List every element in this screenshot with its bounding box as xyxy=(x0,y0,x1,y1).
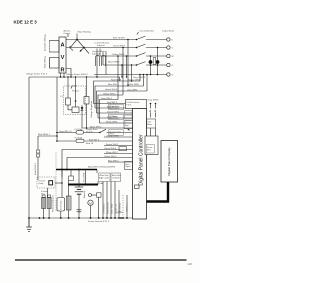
thick wire B xyxy=(68,184,98,186)
wire stub label to star xyxy=(76,34,78,41)
svg-text:Gray WH 4: Gray WH 4 xyxy=(101,97,113,100)
footer rule xyxy=(15,259,187,261)
node cascade v3 xyxy=(146,74,148,76)
wire battery feed row xyxy=(38,135,57,137)
wire relay to plugs xyxy=(47,188,49,198)
node AVR stub2 xyxy=(63,76,65,78)
wire DPC row 10 xyxy=(67,158,133,170)
svg-text:Yellow50/WH2: Yellow50/WH2 xyxy=(101,167,116,169)
output stud O xyxy=(167,63,174,67)
svg-text:Circuit Breaker: Circuit Breaker xyxy=(140,30,155,33)
self protect dashed enclosure xyxy=(64,86,86,115)
svg-text:Black WH 2: Black WH 2 xyxy=(90,126,102,128)
wire DPC row 9b xyxy=(104,153,133,155)
svg-text:Yellow WH 4: Yellow WH 4 xyxy=(103,93,116,95)
wire y77 corner drop xyxy=(119,77,121,81)
svg-text:Main Wiring: Main Wiring xyxy=(44,56,47,68)
wire cascade h5 xyxy=(100,100,119,124)
wire label box C xyxy=(109,130,124,136)
wire DPC row 1 xyxy=(94,103,126,105)
svg-text:Excitation Wiring: Excitation Wiring xyxy=(44,34,47,51)
wire R1 to coil xyxy=(68,105,72,110)
glow plug 2 xyxy=(47,198,51,209)
wire battery column bottom xyxy=(37,157,39,180)
fuse FU1 xyxy=(76,131,84,134)
wire star slant right long xyxy=(77,40,89,54)
svg-text:Red 75 WH: Red 75 WH xyxy=(113,38,125,40)
wire cascade h4 xyxy=(98,95,123,118)
svg-text:White WH 2: White WH 2 xyxy=(106,151,118,154)
connector plug battery xyxy=(36,150,39,157)
wire stub above AVR xyxy=(67,34,69,37)
svg-text:Voltage Detect WH 13: Voltage Detect WH 13 xyxy=(66,73,88,76)
wire resistor to bus xyxy=(68,210,70,218)
svg-text:Red WH 4: Red WH 4 xyxy=(107,102,118,104)
resistor R1 xyxy=(66,98,71,105)
svg-text:Black/WH 2.5: Black/WH 2.5 xyxy=(88,167,102,169)
wire relay feed xyxy=(61,170,63,198)
svg-text:Blue WH 2: Blue WH 2 xyxy=(108,160,119,162)
wire bundle v9 xyxy=(126,56,128,77)
svg-text:Alarm WH 2: Alarm WH 2 xyxy=(109,107,119,110)
node fuse row7 xyxy=(56,132,58,134)
node cascade v4 xyxy=(122,47,124,49)
dashed col xyxy=(122,195,124,218)
wire cascade v3 up xyxy=(146,75,148,92)
svg-text:Signal: Signal xyxy=(125,166,131,168)
svg-text:Main Winding: Main Winding xyxy=(78,32,92,34)
svg-text:White WH4: White WH4 xyxy=(106,120,118,123)
breaker pole 4 xyxy=(136,62,167,66)
svg-text:12-Wire Socket: 12-Wire Socket xyxy=(126,101,139,104)
svg-text:Stop Solenoid: Stop Solenoid xyxy=(106,202,109,214)
svg-text:Gray WH 1.5: Gray WH 1.5 xyxy=(59,130,72,133)
left label boxes column xyxy=(125,111,133,120)
wire AVR stub 1 xyxy=(60,73,62,77)
node cap1 row4 xyxy=(150,64,152,66)
wire cascade v1 up xyxy=(139,75,141,82)
capacitor CD1 body xyxy=(149,60,153,64)
wire sensor col 5 xyxy=(118,190,120,218)
svg-text:Alarm: Alarm xyxy=(147,123,152,126)
switch on row7 xyxy=(99,132,100,133)
svg-text:Voltage Detect P 41 3: Voltage Detect P 41 3 xyxy=(26,73,48,76)
node sp1 xyxy=(67,76,68,77)
wire row2 phase V xyxy=(66,47,137,49)
DPC top connector flange xyxy=(126,100,147,109)
node bundle v7b xyxy=(131,80,132,81)
glow plug caps xyxy=(42,195,45,198)
node AVR stub1 xyxy=(60,76,62,78)
wire motor to bus xyxy=(90,206,92,219)
svg-text:123: 123 xyxy=(188,262,193,266)
sensor label box 2 xyxy=(111,173,121,182)
label box row10 xyxy=(125,162,133,170)
wire R row out xyxy=(66,69,71,78)
fuse FU2 xyxy=(76,139,84,142)
node fuse row8 xyxy=(56,140,58,142)
node battery top xyxy=(78,169,80,171)
node cascade v2 xyxy=(143,74,145,76)
diode pointer below emergency stop xyxy=(127,129,129,131)
node bundle v9 bottom xyxy=(126,76,127,77)
wire sensor col 3 xyxy=(110,182,112,219)
wire CT column b xyxy=(99,49,101,57)
resistor block between capacitors xyxy=(153,58,156,65)
node coil top xyxy=(75,100,77,102)
node cascade v5 xyxy=(117,55,119,57)
resistor R2 xyxy=(84,97,89,105)
svg-text:R: R xyxy=(60,68,64,74)
svg-text:Blue WH 4: Blue WH 4 xyxy=(108,84,119,86)
svg-text:Stop: Stop xyxy=(125,124,129,127)
node bundle v9 top xyxy=(126,55,128,57)
pointer circuit breaker xyxy=(137,32,139,35)
output stud U xyxy=(167,38,174,42)
svg-text:Brown WH 2: Brown WH 2 xyxy=(106,143,119,146)
capacitor CD2 body xyxy=(156,60,160,64)
wire R2 down xyxy=(86,104,88,128)
wire switch to sender xyxy=(92,194,97,196)
winding L2 main xyxy=(50,58,60,69)
wire DPC row 8 fuse row xyxy=(57,140,133,142)
svg-text:Start Relay: Start Relay xyxy=(60,201,63,210)
wire plug2 to bus xyxy=(48,209,50,219)
wire drop to R1 xyxy=(67,77,69,98)
svg-text:Red 8 RVL1: Red 8 RVL1 xyxy=(35,162,37,175)
svg-text:Oil Pressure: Oil Pressure xyxy=(102,204,105,214)
node cap2 row4 xyxy=(157,64,159,66)
node thick row x62 xyxy=(61,169,63,171)
node R2 row xyxy=(86,127,88,129)
op-amp-like regulator block AVR xyxy=(59,37,66,74)
node cap2 row5 xyxy=(157,74,159,76)
capacitor CD1 column xyxy=(150,56,152,75)
connector block inner label xyxy=(146,145,154,154)
svg-text:Output Stud: Output Stud xyxy=(162,30,174,33)
breaker pole 1 xyxy=(136,36,167,40)
svg-text:Relay: Relay xyxy=(39,183,44,185)
svg-text:Orange WH2: Orange WH2 xyxy=(106,134,120,137)
wire label box B xyxy=(109,114,124,120)
svg-text:Black WH.5: Black WH.5 xyxy=(108,61,120,63)
node cap2 row2 xyxy=(157,47,159,49)
digital panel display box U3 xyxy=(161,141,178,183)
oil sender box xyxy=(97,193,102,197)
wire cascade v4 up xyxy=(122,48,124,96)
wire slant into CT column xyxy=(70,48,73,51)
node cap1 row5 xyxy=(150,74,152,76)
svg-text:Digital Panel Controller: Digital Panel Controller xyxy=(139,134,145,185)
thick ribbon cable DPC to display xyxy=(147,182,169,202)
node bundle v7 xyxy=(131,64,133,66)
current transformer CT2 xyxy=(102,56,106,66)
starter motor M xyxy=(88,200,93,205)
capacitor C2 on battery column xyxy=(77,210,82,212)
breaker pole 2 xyxy=(136,44,167,48)
node bundle v8 bottom xyxy=(121,76,122,77)
diode D1 xyxy=(81,105,84,113)
svg-text:FU 50A: FU 50A xyxy=(75,136,83,139)
bus nodes xyxy=(28,217,128,219)
svg-text:A: A xyxy=(60,43,64,49)
node cap1 row3 xyxy=(150,55,152,57)
wire ground drop xyxy=(28,218,30,227)
node relay contact xyxy=(61,182,63,184)
wire plug b down xyxy=(155,128,157,136)
node CT a xyxy=(96,76,98,78)
node star point xyxy=(76,39,78,41)
wire DPC row 5b xyxy=(104,136,133,138)
connector square inside DPC xyxy=(135,185,140,189)
wire DPC row 3 xyxy=(97,112,133,114)
breaker pole 3 xyxy=(136,53,167,57)
wire DPC row 5 xyxy=(100,122,133,124)
preheat relay dashed box xyxy=(37,177,55,188)
wire sensor col 1 xyxy=(102,182,104,219)
wire thick B drop xyxy=(97,182,99,185)
svg-text:Green WH4: Green WH4 xyxy=(107,110,119,113)
svg-text:Red WH 4: Red WH 4 xyxy=(89,139,100,141)
svg-text:Red 30/50 1: Red 30/50 1 xyxy=(38,134,51,136)
svg-text:Yellow WH5: Yellow WH5 xyxy=(127,84,139,86)
svg-text:V: V xyxy=(61,55,65,61)
wire CT column a xyxy=(96,49,98,78)
wire sensor col 4 xyxy=(114,182,116,219)
battery GB xyxy=(75,187,84,194)
svg-text:Yellow WH 2: Yellow WH 2 xyxy=(104,156,117,158)
svg-text:Digital Panel Display: Digital Panel Display xyxy=(167,147,171,176)
wire drop to coil top xyxy=(75,77,77,107)
svg-text:Green WH 4: Green WH 4 xyxy=(105,88,118,91)
svg-text:Gray WH5: Gray WH5 xyxy=(127,88,138,91)
node bundle v8 top xyxy=(121,64,123,66)
wire sensor col 2 xyxy=(106,182,108,219)
wire row5 ground row xyxy=(94,74,167,76)
pointer self protect xyxy=(71,86,73,89)
current transformer CT1 xyxy=(96,56,100,66)
wire cascade v2 up xyxy=(143,75,145,87)
wire relay contact out xyxy=(55,182,62,184)
wire thick A end drop xyxy=(96,170,98,174)
svg-text:Green WH.5: Green WH.5 xyxy=(113,45,126,48)
node thick row x67 xyxy=(66,169,68,171)
oil pressure switch circle xyxy=(89,194,92,197)
winding L1 excitation xyxy=(50,41,60,53)
svg-text:Voltage Regulator: Voltage Regulator xyxy=(90,100,93,118)
wire bundle v6 xyxy=(127,40,129,86)
wire DPC row 2 xyxy=(95,107,126,109)
wire bundle v7 xyxy=(131,65,133,81)
wire tap arm xyxy=(80,48,84,52)
svg-text:FU 10A: FU 10A xyxy=(75,128,83,131)
wire bundle v8 xyxy=(121,65,123,77)
svg-text:Green WH 4: Green WH 4 xyxy=(104,147,117,150)
wire DPC row 7 fuse row xyxy=(57,132,100,134)
wire AVR stub 2 xyxy=(63,73,65,77)
svg-text:Self: Self xyxy=(73,86,77,88)
svg-text:Output: Output xyxy=(64,32,71,35)
wire row4 neutral xyxy=(103,64,137,66)
plug wire b xyxy=(155,103,157,118)
svg-text:White RVB: White RVB xyxy=(82,172,85,182)
node row2 tap xyxy=(83,47,85,49)
output stud W xyxy=(167,54,175,58)
svg-text:O: O xyxy=(172,65,174,67)
svg-text:Water Temp: Water Temp xyxy=(110,204,113,214)
svg-text:P 4 B: P 4 B xyxy=(126,105,131,107)
glow plug 1 xyxy=(42,198,46,209)
svg-text:Oil Switch: Oil Switch xyxy=(112,177,120,180)
svg-text:}: } xyxy=(117,211,123,213)
digital panel controller box U2 xyxy=(133,109,147,220)
plug wire a xyxy=(150,103,152,118)
wire battery column xyxy=(78,170,80,188)
wire fuse holder branch xyxy=(70,170,72,177)
node sp3 xyxy=(86,76,87,77)
arrowhead tap arm xyxy=(80,50,82,52)
svg-text:Alarm WH 2: Alarm WH 2 xyxy=(109,117,119,120)
node battery feed xyxy=(56,135,58,137)
wire plug1 to bus xyxy=(43,209,45,219)
relay contact dark square xyxy=(49,181,53,185)
svg-text:Preheat Indicator: Preheat Indicator xyxy=(52,195,55,212)
svg-text:Fuel Cutoff: Fuel Cutoff xyxy=(99,177,109,180)
wire col x127 xyxy=(126,195,128,218)
node R row xyxy=(70,76,72,78)
connector label box right of DPC xyxy=(147,119,156,128)
wire row1 phase U xyxy=(66,39,137,41)
wire relay to bus xyxy=(60,211,62,218)
wire star slant left xyxy=(70,40,77,48)
wire mid sensor drop xyxy=(85,171,87,185)
wire DPC row 8b xyxy=(104,145,133,147)
starter relay box xyxy=(57,198,65,212)
resistor hatched xyxy=(66,196,71,210)
ground bus xyxy=(29,217,133,219)
svg-text:Frame Ground P 41 3: Frame Ground P 41 3 xyxy=(88,220,110,223)
wire hatched resistor feed xyxy=(68,181,70,197)
wire DPC row 6 xyxy=(82,127,133,129)
svg-text:Inductor: Inductor xyxy=(97,44,105,47)
wire cascade h3 xyxy=(97,91,148,113)
wire label box A xyxy=(109,104,124,110)
wire generator top edge y77 xyxy=(29,76,120,78)
svg-text:Green WH4: Green WH4 xyxy=(129,78,141,81)
wire DPC row 4 xyxy=(98,117,133,119)
output stud G xyxy=(167,73,174,77)
connector block outer xyxy=(145,136,158,155)
connector small box row9 xyxy=(119,147,127,151)
emergency stop box xyxy=(124,121,133,129)
wire CT column c xyxy=(102,52,104,65)
svg-text:Stop P: Stop P xyxy=(86,130,93,133)
wire DPC row 10b xyxy=(108,161,133,163)
wire sender to bus xyxy=(98,197,100,218)
wire generator left edge xyxy=(28,77,30,226)
ground xyxy=(26,227,32,232)
svg-text:LCD Power: LCD Power xyxy=(126,202,129,212)
svg-text:Red WH 8: Red WH 8 xyxy=(111,79,122,81)
wire drop to R2 xyxy=(86,77,88,97)
capacitor CD2 column xyxy=(157,48,159,75)
svg-text:Inductor: Inductor xyxy=(92,52,100,55)
wire cascade h1 xyxy=(94,81,141,104)
output stud V xyxy=(167,46,174,50)
wire D1 down xyxy=(81,113,83,129)
wire plug a down xyxy=(150,128,152,136)
dashed sensor line xyxy=(55,152,57,212)
svg-text:Battery: Battery xyxy=(83,190,86,198)
svg-text:G: G xyxy=(172,75,174,77)
svg-text:Wire: Wire xyxy=(147,148,151,151)
wire cascade v5 up xyxy=(117,56,119,100)
relay coil K1 xyxy=(72,107,79,113)
wire battery column top xyxy=(37,136,39,150)
node bundle v6 bottom xyxy=(127,85,128,86)
sensor label box 1 xyxy=(99,173,111,182)
svg-text:KDE 12 E 3: KDE 12 E 3 xyxy=(14,20,38,25)
node bundle v6 top xyxy=(127,39,129,41)
wire CT column d xyxy=(105,52,107,75)
wire cascade h2 xyxy=(95,86,144,108)
thick wire A xyxy=(56,169,97,171)
fuse holder battery xyxy=(69,176,74,181)
arrowhead star left xyxy=(69,46,71,48)
svg-text:Gray WH 8: Gray WH 8 xyxy=(148,99,160,102)
wire drop self protect to fuses xyxy=(56,77,58,141)
node cascade v1 xyxy=(139,74,141,76)
svg-text:Red 16: Red 16 xyxy=(86,143,94,145)
node sp2 xyxy=(75,76,76,77)
wire battery to bus xyxy=(78,194,80,218)
wire DPC row 9 xyxy=(62,150,133,178)
wire row3 phase W xyxy=(100,55,137,57)
